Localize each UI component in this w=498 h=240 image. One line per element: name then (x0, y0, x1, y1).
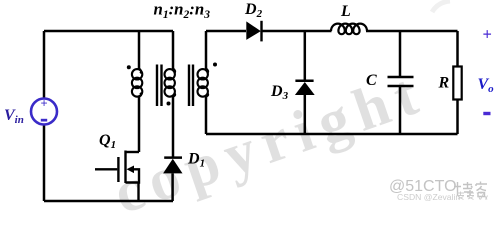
transformer winding2 dot (167, 102, 171, 106)
wire D3 branch upper (304, 31, 307, 81)
wire D2 cathode to L (262, 30, 332, 33)
wire L to R corner (366, 30, 458, 33)
transistor Q1 (MOSFET) (95, 151, 139, 202)
wire top-left rail (44, 30, 173, 33)
wire winding1 top lead (138, 31, 141, 70)
transformer winding3 dot (213, 63, 217, 67)
svg-text:Q1: Q1 (99, 132, 116, 151)
watermark hanzi ke (476, 182, 487, 197)
wire left branch upper (43, 31, 46, 99)
wire secondary top rail: winding3 to D2 anode (206, 30, 246, 33)
svg-text:n1:n2:n3: n1:n2:n3 (154, 0, 211, 21)
wire bottom-left rail (44, 200, 173, 203)
svg-text:Vo: Vo (478, 76, 495, 95)
watermark CSDN line (397, 192, 460, 202)
transformer core bars pair 2 (189, 65, 193, 107)
wire winding2 top lead (172, 31, 175, 70)
wire left branch lower (43, 125, 46, 202)
svg-text:L: L (340, 3, 351, 20)
diode D1 (163, 158, 182, 174)
watermark hanzi bo (454, 182, 473, 197)
wire secondary bottom rail (206, 133, 458, 136)
svg-text:R: R (438, 75, 450, 92)
transformer winding 2 (n2 reset) (165, 69, 176, 97)
wire winding1 bottom lead to Q1 drain (138, 96, 141, 153)
svg-text:Vin: Vin (4, 107, 24, 126)
svg-text:D2: D2 (244, 1, 263, 20)
svg-text:D1: D1 (187, 151, 205, 170)
wire winding3 top lead (205, 31, 208, 70)
diode D2 (246, 21, 261, 42)
transformer winding 1 (n1 primary) (132, 69, 142, 97)
label - output (483, 112, 490, 115)
resistor R (453, 67, 461, 100)
wire R branch upper (456, 31, 459, 67)
voltage source Vin (31, 97, 57, 125)
wire D1 anode to bottom rail (171, 173, 174, 201)
wire winding3 bottom lead (205, 96, 208, 135)
svg-text:C: C (366, 72, 377, 89)
wire R branch lower (456, 100, 459, 135)
watermark corner fragment (432, 1, 450, 12)
svg-text:+: + (483, 25, 492, 44)
Q1 body arrow (127, 166, 135, 174)
transformer winding 3 (n3 secondary) (198, 69, 209, 97)
diode D3 (295, 81, 315, 95)
watermark diagonal copyright (105, 57, 434, 228)
wire C branch lower (399, 86, 402, 134)
wire C branch upper (399, 31, 402, 77)
wire D3 branch lower (304, 95, 307, 134)
capacitor C (388, 77, 414, 86)
transformer core bars pair 1 (157, 65, 162, 107)
inductor L (331, 24, 367, 35)
svg-text:+: + (40, 97, 47, 111)
watermark hanzi mai-mai-hui small (457, 192, 488, 200)
svg-text:D3: D3 (270, 83, 289, 102)
wire winding2 bottom lead to D1 (172, 96, 175, 158)
transformer winding1 dot (127, 65, 131, 69)
watermark @51CTO (389, 178, 457, 196)
